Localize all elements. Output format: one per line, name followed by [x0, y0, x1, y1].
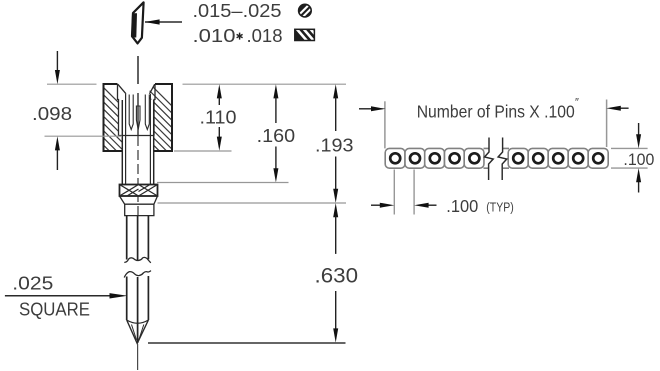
cavity profile right: [154, 84, 155, 136]
centerline in tube (dashed): [137, 136, 139, 215]
break line right: [498, 138, 507, 181]
socket body outline: [104, 84, 173, 151]
neck section: [125, 204, 154, 215]
central contact plunger: [136, 106, 140, 130]
dim .110 bottom extension line: [174, 150, 232, 152]
centerline through cavity: [137, 93, 139, 135]
dim .110 arrows and stems: [217, 84, 222, 98]
svg-text:.025: .025: [12, 273, 53, 294]
dim .100 right: top stem and arrow: [638, 123, 640, 135]
svg-text:.098: .098: [32, 103, 72, 124]
extension line at body top right: [183, 83, 347, 85]
break wave lower: [124, 271, 151, 278]
contact finger left: [129, 95, 133, 130]
number of pins: left extension line: [384, 101, 386, 148]
dim .100 right: extension lines: [611, 147, 648, 149]
svg-text:.110: .110: [200, 107, 237, 128]
right wall hatching: [144, 78, 178, 184]
svg-text:.100: .100: [623, 150, 654, 169]
dim .098 top stem and arrow: [56, 51, 58, 71]
right part stub at break: [503, 148, 509, 168]
dim .630 bottom stem and arrow: [335, 291, 337, 329]
dim .100 typ: left arrow: [371, 204, 381, 206]
dim .160 arrows and stems: [273, 84, 278, 98]
contact finger right: [145, 95, 149, 130]
number of pins: left arrow: [359, 108, 372, 110]
svg-text:.193: .193: [315, 135, 354, 156]
dim .630 bottom extension line: [148, 342, 346, 344]
pin tip inner facets: [132, 325, 137, 341]
pin tip taper: [127, 320, 149, 344]
dim .160 bottom extension line: [157, 182, 289, 184]
top view: pin cells left part: [385, 148, 484, 168]
dim .630 top arrow and stem: [333, 203, 338, 217]
centerline below tip: [137, 344, 139, 370]
dim .098 bottom stem and arrow: [56, 149, 58, 170]
square pin upper section: [127, 216, 149, 261]
dim .098 bottom extension line: [45, 135, 123, 137]
cavity profile left: [118, 84, 119, 136]
number of pins: right extension line: [606, 100, 608, 148]
centerline above body: [137, 56, 139, 84]
break wave upper: [124, 257, 151, 262]
pin blade detail (top left): [132, 2, 144, 43]
leader line to blade: [145, 21, 182, 23]
top view: pin cells right part: [508, 148, 608, 168]
star symbol: [237, 33, 243, 40]
dim .100 right: bottom stem and arrow: [638, 181, 640, 192]
left part stub at break: [484, 148, 489, 168]
svg-text:.160: .160: [257, 125, 296, 146]
dim .100 typ: right arrow: [428, 204, 437, 206]
svg-text:.010: .010: [193, 26, 236, 46]
svg-text:.100: .100: [446, 196, 478, 216]
break line left: [485, 138, 494, 181]
contact sleeve outer walls: [121, 100, 123, 185]
ferrule cross hatch: [120, 185, 158, 197]
number of pins: right arrow: [620, 107, 629, 109]
svg-text:(TYP): (TYP): [486, 200, 514, 215]
pin holes right part: [513, 153, 603, 163]
svg-text:Number of Pins X .100: Number of Pins X .100: [417, 101, 575, 121]
svg-text:SQUARE: SQUARE: [19, 298, 90, 319]
funnel chamfer right: [150, 84, 155, 94]
leader arrowhead: [110, 293, 128, 298]
dim .098 top extension line: [47, 83, 97, 85]
contact sleeve inner walls: [125, 94, 127, 185]
symbol: hatched circle: [299, 4, 313, 18]
left wall hatching: [96, 80, 130, 179]
funnel chamfer left: [118, 84, 126, 94]
leader arrowhead: [145, 19, 160, 24]
dim .193/.630 shared extension line: [158, 202, 347, 204]
svg-text:.018: .018: [247, 26, 283, 46]
svg-text:.015–.025: .015–.025: [193, 1, 282, 21]
svg-text:.630: .630: [315, 264, 359, 287]
symbol: hatched rect: [295, 25, 320, 42]
ferrule band outline: [120, 185, 158, 197]
square pin lower section: [127, 276, 149, 343]
leader line .025 SQUARE: [5, 295, 113, 297]
dim .100 typ: extension lines: [393, 170, 395, 215]
taper below ferrule: [120, 196, 158, 204]
pin holes left part: [390, 153, 479, 163]
pin tip facet curve: [127, 320, 149, 323]
svg-text:″: ″: [575, 97, 579, 109]
cavity bottom shelf: [119, 135, 155, 137]
dim .193 arrows and stems: [333, 84, 338, 98]
